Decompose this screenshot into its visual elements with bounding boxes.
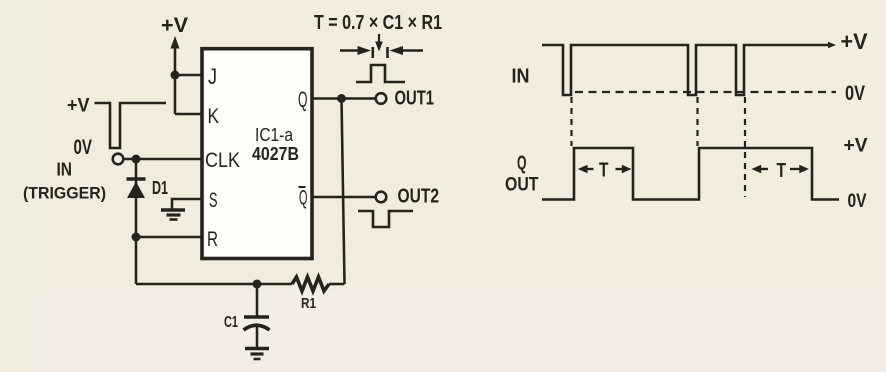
svg-text:IN: IN: [512, 66, 530, 88]
svg-text:T: T: [777, 160, 787, 182]
svg-text:J: J: [208, 64, 217, 89]
wire K pin: [175, 113, 203, 116]
ground C1: [245, 349, 269, 360]
svg-text:OUT: OUT: [505, 175, 539, 196]
svg-text:D1: D1: [152, 178, 168, 198]
svg-text:Q: Q: [298, 87, 308, 112]
svg-text:+V: +V: [841, 29, 868, 54]
T annotation 1: [578, 160, 632, 182]
svg-text:0V: 0V: [848, 191, 867, 212]
svg-text:K: K: [208, 105, 220, 128]
wire diode branch vertical: [135, 159, 138, 284]
pin Qbar label: [299, 187, 308, 210]
svg-text:R: R: [207, 228, 218, 251]
wire Qbar output: [312, 196, 376, 199]
svg-text:+V: +V: [161, 14, 188, 37]
node C1 junction dot: [253, 280, 262, 289]
wire J pin: [175, 74, 203, 77]
width annotation arrows: [340, 34, 423, 58]
wire IN to CLK: [124, 158, 204, 161]
supply arrow: [171, 36, 180, 75]
svg-text:T: T: [599, 160, 609, 182]
svg-text:OUT1: OUT1: [395, 88, 435, 110]
wire bottom horizontal: [136, 283, 257, 286]
svg-text:IC1-a: IC1-a: [255, 125, 294, 145]
IC U1 IC1-a 4027B box: [202, 49, 312, 259]
timing 0V dashed line: [575, 91, 836, 93]
wire R1 to feedback: [329, 283, 345, 286]
wire S pin: [172, 199, 203, 209]
capacitor C1: [244, 284, 270, 347]
svg-text:+V: +V: [67, 95, 90, 117]
svg-text:Q: Q: [299, 187, 308, 210]
svg-text:0V: 0V: [845, 81, 865, 105]
wire J to K: [174, 75, 177, 114]
wire to R1: [257, 283, 292, 286]
OUT2 pulse glyph: [358, 211, 413, 227]
svg-text:Q: Q: [517, 153, 527, 175]
svg-text:0V: 0V: [74, 136, 93, 159]
svg-text:+V: +V: [844, 136, 868, 157]
svg-text:S: S: [209, 189, 218, 212]
ground S: [161, 210, 185, 220]
IN terminal circle: [113, 154, 124, 165]
dashed vertical 2: [696, 97, 698, 146]
node J junction dot: [171, 71, 180, 80]
svg-text:OUT2: OUT2: [398, 186, 440, 208]
svg-text:(TRIGGER): (TRIGGER): [23, 185, 106, 203]
diode D1: [127, 179, 146, 198]
timing IN arrow end: [828, 42, 836, 48]
svg-text:R1: R1: [301, 295, 316, 312]
OUT2 terminal circle: [376, 192, 387, 203]
dashed vertical 1: [570, 97, 572, 146]
timing Q waveform: [542, 148, 839, 200]
trigger waveform annotation: [95, 103, 167, 148]
dashed vertical 3: [744, 97, 746, 197]
timing IN waveform: [542, 45, 831, 95]
svg-text:C1: C1: [224, 314, 238, 331]
resistor R1: [292, 277, 329, 291]
wire Q output: [312, 97, 376, 100]
node CLK junction dot: [132, 155, 141, 164]
svg-text:T = 0.7 × C1 × R1: T = 0.7 × C1 × R1: [314, 12, 442, 34]
node R junction dot: [132, 233, 141, 242]
wire R pin: [136, 236, 203, 239]
OUT1 terminal circle: [376, 93, 387, 104]
node Q junction dot: [337, 94, 346, 103]
svg-text:CLK: CLK: [205, 149, 240, 172]
T annotation 2: [752, 160, 810, 182]
wire feedback vertical: [342, 99, 345, 285]
svg-text:IN: IN: [57, 160, 73, 180]
svg-text:4027B: 4027B: [252, 144, 299, 164]
OUT1 pulse glyph: [356, 65, 405, 82]
